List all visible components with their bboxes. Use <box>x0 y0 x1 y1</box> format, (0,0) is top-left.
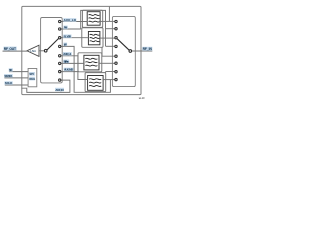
svg-text:SPI: SPI <box>29 72 34 76</box>
svg-text:tw-10: tw-10 <box>139 96 145 100</box>
svg-text:AUX_L1: AUX_L1 <box>63 52 71 56</box>
svg-text:RF_IN: RF_IN <box>143 47 153 51</box>
svg-text:SDATA: SDATA <box>4 74 13 78</box>
svg-text:AUX_LO: AUX_LO <box>64 18 77 22</box>
svg-text:AUX_MID: AUX_MID <box>64 68 73 72</box>
svg-text:FM: FM <box>64 26 68 30</box>
svg-text:SD: SD <box>9 68 12 72</box>
svg-text:SCLK: SCLK <box>5 81 13 85</box>
svg-text:REG: REG <box>29 77 35 81</box>
svg-text:BL_VDD: BL_VDD <box>64 35 72 39</box>
svg-text:ByPass: ByPass <box>64 60 70 64</box>
svg-text:AUX_IN: AUX_IN <box>55 88 63 92</box>
svg-text:RF_OUT: RF_OUT <box>4 47 16 51</box>
svg-text:LW: LW <box>64 43 67 47</box>
svg-text:LNA: LNA <box>30 49 36 53</box>
